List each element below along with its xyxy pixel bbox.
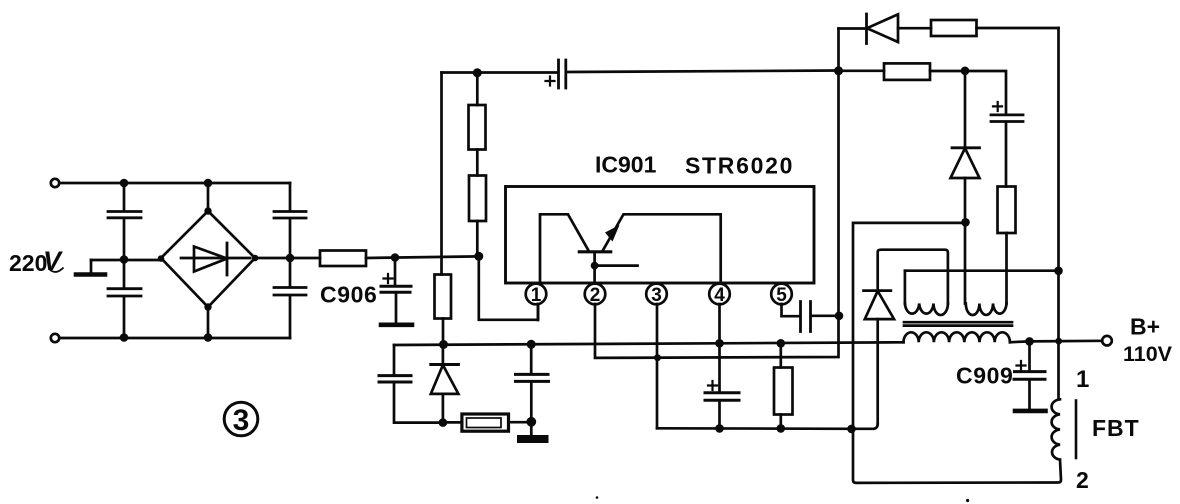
svg-text:IC901: IC901 <box>595 152 657 178</box>
svg-text:2: 2 <box>590 285 601 306</box>
svg-text:FBT: FBT <box>1092 415 1140 441</box>
svg-text:220: 220 <box>9 250 47 276</box>
svg-text:C906: C906 <box>320 282 377 308</box>
svg-text:1: 1 <box>531 285 542 306</box>
svg-text:B+: B+ <box>1130 314 1160 340</box>
svg-text:2: 2 <box>1076 467 1089 493</box>
svg-text:5: 5 <box>776 285 787 306</box>
svg-text:110V: 110V <box>1123 342 1173 366</box>
svg-text:C909: C909 <box>956 363 1013 389</box>
svg-text:3: 3 <box>233 404 250 437</box>
svg-text:3: 3 <box>651 285 662 306</box>
svg-text:STR6020: STR6020 <box>685 153 794 179</box>
svg-text:1: 1 <box>1076 366 1089 393</box>
svg-text:4: 4 <box>714 285 725 306</box>
